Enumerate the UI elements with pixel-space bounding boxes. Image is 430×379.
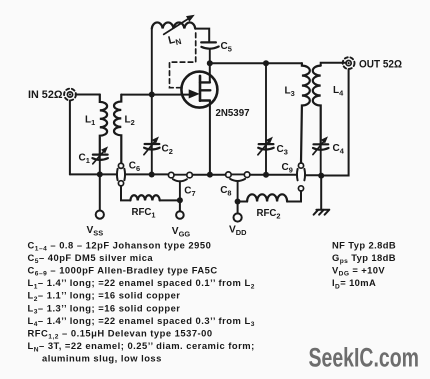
svg-text:Gps Typ 18dB: Gps Typ 18dB bbox=[332, 252, 396, 265]
wire: RFC2 to C9 bottom bbox=[287, 191, 301, 201]
svg-text:L2– 1.1’’ long; =16 solid copp: L2– 1.1’’ long; =16 solid copper bbox=[28, 290, 181, 303]
wire: source lead down to ground rail bbox=[209, 101, 211, 175]
node: C3 tap on drain line bbox=[263, 60, 269, 66]
wire: VSS stem bbox=[99, 174, 101, 210]
node: RFC1 / C7 / VGG junction bbox=[177, 197, 183, 203]
svg-text:L4: L4 bbox=[333, 85, 344, 98]
svg-text:aluminum slug, low loss: aluminum slug, low loss bbox=[42, 353, 162, 364]
node: source / ground rail junction bbox=[207, 172, 213, 178]
svg-text:C1: C1 bbox=[79, 153, 90, 166]
svg-text:C5: C5 bbox=[221, 41, 232, 54]
capacitor C7 (feedthrough) bbox=[168, 172, 192, 200]
transistor Q1 2N5397 JFET bbox=[181, 72, 217, 108]
svg-text:C3: C3 bbox=[277, 144, 288, 157]
svg-text:C7: C7 bbox=[184, 186, 195, 199]
performance text block bbox=[332, 239, 396, 290]
svg-text:VDD: VDD bbox=[229, 225, 247, 238]
ground (chassis) bbox=[314, 210, 330, 215]
svg-text:C1–4 – 0.8 – 12pF Johanson typ: C1–4 – 0.8 – 12pF Johanson type 2950 bbox=[28, 239, 212, 252]
capacitor C4 (variable) bbox=[313, 137, 329, 175]
capacitor C2 (variable) bbox=[144, 95, 160, 175]
svg-text:IN 52Ω: IN 52Ω bbox=[28, 89, 63, 101]
svg-text:L2: L2 bbox=[125, 115, 135, 128]
svg-text:VGG: VGG bbox=[172, 226, 191, 239]
capacitor C3 (variable) bbox=[258, 63, 274, 175]
parts list text block bbox=[28, 239, 255, 363]
node: C1/VSS junction bbox=[97, 171, 103, 177]
svg-text:C4: C4 bbox=[333, 143, 345, 156]
svg-text:L1: L1 bbox=[85, 115, 95, 128]
terminal VSS bbox=[96, 211, 104, 219]
svg-text:L1– 1.4’’ long; =22 enamel spa: L1– 1.4’’ long; =22 enamel spaced 0.1’’ … bbox=[28, 277, 255, 290]
wire: gate line from L2 top to FET gate bbox=[121, 94, 189, 96]
inductor L4 bbox=[313, 66, 321, 144]
capacitor C1 (variable) bbox=[92, 147, 108, 174]
capacitor C6 (feedthrough) bbox=[117, 163, 125, 186]
node: C4/ground/out-shell junction bbox=[318, 173, 324, 179]
svg-text:L3: L3 bbox=[285, 86, 295, 99]
wire: ground rail segment A (IN shell corner to C6) bbox=[70, 173, 117, 175]
capacitor C5 bbox=[201, 42, 219, 63]
wire: L4 top to OUT pin bbox=[321, 63, 346, 66]
inductor LN (variable, neutralizing) bbox=[152, 15, 195, 94]
node: gate junction bbox=[149, 92, 155, 98]
terminal VDD bbox=[234, 213, 242, 221]
inductor RFC1 bbox=[130, 195, 159, 200]
wire: C8 stem to RFC2 bbox=[238, 201, 248, 203]
dashed link: LN/C5 network to gate (shield outline) bbox=[170, 33, 196, 88]
wire: C6 bottom to RFC1 bbox=[121, 186, 130, 201]
svg-text:SeekIC.com: SeekIC.com bbox=[309, 343, 420, 373]
svg-text:C6–9 – 1000pF Allen-Bradley ty: C6–9 – 1000pF Allen-Bradley type FA5C bbox=[28, 265, 218, 278]
inductor RFC2 bbox=[247, 194, 287, 201]
svg-text:C5– 40pF DM5 silver mica: C5– 40pF DM5 silver mica bbox=[28, 252, 154, 265]
connector J1 IN 52 ohm bbox=[64, 89, 76, 101]
wire: VDD stem bbox=[237, 202, 239, 214]
svg-text:VSS: VSS bbox=[87, 225, 104, 238]
svg-text:C6: C6 bbox=[129, 160, 140, 173]
svg-text:LN: LN bbox=[167, 32, 183, 48]
svg-text:L3– 1.3’’ long; =16 solid copp: L3– 1.3’’ long; =16 solid copper bbox=[28, 302, 181, 315]
wire: RFC1 to VGG node bbox=[160, 199, 180, 201]
wire: drain node to L3 top bbox=[210, 62, 302, 64]
svg-text:OUT 52Ω: OUT 52Ω bbox=[359, 58, 402, 70]
svg-text:LN– 3T, =22 enamel; 0.25’’ dia: LN– 3T, =22 enamel; 0.25’’ diam. ceramic… bbox=[28, 340, 255, 353]
svg-text:2N5397: 2N5397 bbox=[216, 108, 250, 119]
svg-text:NF Typ 2.8dB: NF Typ 2.8dB bbox=[332, 239, 396, 250]
node: C8 / RFC2 / VDD junction bbox=[235, 199, 241, 205]
wire: OUT shell down to ground node bbox=[321, 69, 348, 175]
wire: VGG stem bbox=[179, 200, 181, 211]
svg-text:C2: C2 bbox=[162, 144, 173, 157]
svg-text:C9: C9 bbox=[282, 162, 293, 175]
capacitor C8 (feedthrough) bbox=[226, 172, 250, 202]
node: C2 / ground rail junction bbox=[149, 172, 155, 178]
terminal VGG bbox=[176, 211, 184, 219]
wire: ground stem bbox=[320, 176, 322, 209]
capacitor C9 (feedthrough) bbox=[297, 163, 305, 191]
node: C3 / ground rail junction bbox=[263, 172, 269, 178]
svg-text:ID= 10mA: ID= 10mA bbox=[332, 277, 376, 290]
svg-text:L4– 1.4’’ long; =22 enamel spa: L4– 1.4’’ long; =22 enamel spaced 0.3’’ … bbox=[28, 315, 255, 328]
svg-text:RFC1: RFC1 bbox=[132, 207, 156, 220]
svg-text:RFC2: RFC2 bbox=[257, 208, 281, 221]
svg-text:RFC1,2 – 0.15μH Delevan type 1: RFC1,2 – 0.15μH Delevan type 1537-00 bbox=[28, 328, 213, 341]
wire: ground rail segment E (C9 to ground node) bbox=[305, 174, 321, 176]
wire: ground rail segment D (C8 to C9) bbox=[250, 174, 297, 176]
wire: IN pin to L1 top bbox=[76, 94, 100, 96]
connector J2 OUT 52 ohm bbox=[343, 57, 355, 69]
wire: IN shell ground stem bbox=[69, 101, 71, 175]
inductor L3 bbox=[301, 63, 310, 163]
svg-text:C8: C8 bbox=[220, 185, 231, 198]
svg-text:VDG = +10V: VDG = +10V bbox=[332, 265, 385, 278]
wire: LN right end to C5 bbox=[195, 29, 209, 43]
node: drain / C5 junction bbox=[207, 60, 213, 66]
wire: ground rail segment B (C6 to C7) bbox=[125, 173, 168, 175]
wire: ground rail segment C (C7 to C8) bbox=[192, 174, 225, 176]
wire: drain lead up to node bbox=[209, 63, 211, 82]
inductor L1 bbox=[100, 95, 107, 154]
inductor L2 bbox=[114, 95, 121, 164]
